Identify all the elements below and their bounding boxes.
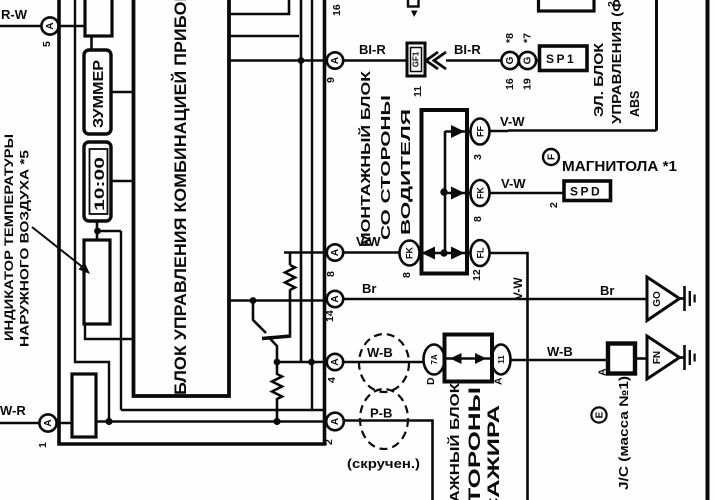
svg-text:8: 8 [325, 271, 337, 277]
svg-text:E: E [595, 411, 606, 418]
svg-text:ЗУММЕР: ЗУММЕР [91, 60, 107, 128]
svg-text:W-R: W-R [0, 403, 26, 418]
svg-text:8: 8 [401, 272, 413, 278]
svg-text:11: 11 [412, 86, 424, 97]
svg-text:*7: *7 [522, 33, 534, 43]
svg-text:ЭЛ. БЛОК: ЭЛ. БЛОК [592, 43, 606, 117]
svg-text:14: 14 [324, 310, 336, 322]
svg-text:МОНТАЖНЫЙ БЛОК: МОНТАЖНЫЙ БЛОК [358, 71, 373, 247]
svg-text:НАРУЖНОГО ВОЗДУХА *5: НАРУЖНОГО ВОЗДУХА *5 [20, 149, 32, 347]
svg-text:A: A [597, 368, 609, 376]
svg-text:GF1: GF1 [412, 51, 421, 67]
svg-text:FK: FK [476, 187, 486, 199]
svg-text:СО СТОРОНЫ: СО СТОРОНЫ [378, 95, 393, 240]
svg-text:11: 11 [497, 355, 506, 364]
svg-text:G: G [523, 56, 534, 64]
svg-text:5: 5 [41, 41, 53, 47]
svg-text:A: A [330, 358, 341, 365]
svg-text:F: F [547, 154, 558, 160]
svg-text:8: 8 [472, 216, 484, 222]
svg-text:J/C (масса №1): J/C (масса №1) [617, 376, 631, 490]
svg-text:P-B: P-B [370, 406, 392, 421]
svg-text:A: A [43, 419, 54, 426]
svg-text:SP1: SP1 [546, 52, 576, 66]
svg-text:FF: FF [476, 126, 486, 137]
svg-text:D: D [425, 377, 437, 385]
svg-text:A: A [330, 249, 341, 256]
svg-text:4: 4 [326, 377, 338, 383]
svg-text:BI-R: BI-R [454, 42, 481, 57]
svg-text:12: 12 [471, 269, 483, 281]
svg-text:SPD: SPD [570, 185, 602, 199]
svg-text:1: 1 [37, 442, 49, 448]
svg-text:ИНДИКАТОР ТЕМПЕРАТУРЫ: ИНДИКАТОР ТЕМПЕРАТУРЫ [4, 134, 16, 341]
svg-text:2: 2 [323, 439, 335, 445]
svg-text:R-W: R-W [1, 7, 28, 22]
svg-text:МОНТАЖНЫЙ БЛОК: МОНТАЖНЫЙ БЛОК [447, 383, 462, 500]
svg-text:A: A [493, 377, 505, 385]
svg-text:A: A [330, 418, 341, 425]
svg-text:3: 3 [472, 154, 484, 160]
svg-text:FN: FN [652, 351, 663, 364]
svg-text:Br: Br [362, 281, 376, 296]
svg-text:(скручен.): (скручен.) [347, 457, 420, 471]
svg-text:BI-R: BI-R [359, 42, 386, 57]
svg-text:16: 16 [504, 78, 516, 90]
svg-text:7A: 7A [430, 354, 439, 364]
svg-text:V-W: V-W [511, 277, 525, 300]
svg-text:A: A [330, 295, 341, 302]
svg-text:16: 16 [331, 4, 343, 16]
svg-text:W-B: W-B [367, 345, 393, 360]
svg-text:ABS: ABS [628, 91, 642, 117]
svg-text:10:00: 10:00 [92, 157, 107, 211]
svg-text:УПРАВЛЕНИЯ (Ф: УПРАВЛЕНИЯ (Ф [610, 0, 624, 124]
svg-text:A: A [45, 22, 56, 29]
svg-text:МАГНИТОЛА *1: МАГНИТОЛА *1 [562, 158, 677, 175]
svg-text:FK: FK [405, 247, 415, 259]
svg-text:FL: FL [476, 247, 486, 258]
svg-text:БЛОК УПРАВЛЕНИЯ КОМБИНАЦИЕЙ ПР: БЛОК УПРАВЛЕНИЯ КОМБИНАЦИЕЙ ПРИБОРОВ [171, 0, 190, 395]
svg-text:19: 19 [522, 78, 534, 90]
svg-text:GO: GO [652, 291, 663, 307]
svg-text:A: A [330, 57, 341, 64]
svg-text:2: 2 [548, 202, 560, 208]
svg-text:V-W: V-W [501, 176, 526, 191]
svg-text:СО СТОРОНЫ: СО СТОРОНЫ [465, 387, 484, 500]
svg-text:*8: *8 [504, 33, 516, 43]
svg-text:ВОДИТЕЛЯ: ВОДИТЕЛЯ [398, 109, 413, 235]
svg-text:G: G [505, 56, 516, 64]
svg-text:Br: Br [600, 283, 614, 298]
svg-text:W-B: W-B [547, 344, 573, 359]
svg-text:V-W: V-W [500, 114, 525, 129]
svg-text:ПАССАЖИРА: ПАССАЖИРА [484, 405, 503, 500]
svg-text:9: 9 [325, 77, 337, 83]
